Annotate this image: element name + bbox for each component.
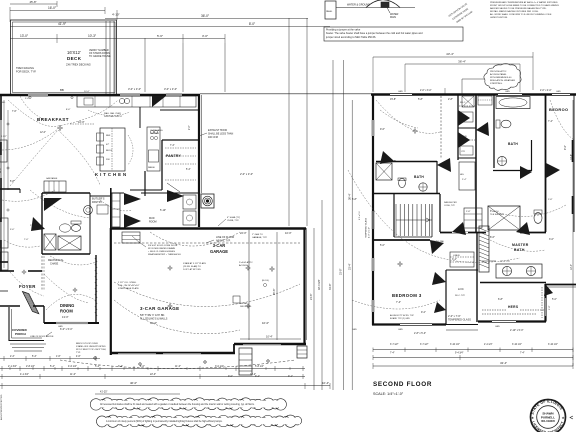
window labels above top wall: [60, 87, 177, 92]
svg-text:5'-0 x 3'-6: 5'-0 x 3'-6: [490, 211, 500, 213]
dimension line 36'-0 upper right of first floor: [105, 14, 308, 19]
room label BEDROOM 3: [392, 293, 422, 304]
note wall cab over: [104, 112, 123, 118]
staircase second floor vertical treads: [396, 204, 432, 236]
dimension row 1 first floor: [0, 365, 305, 369]
dimension 4'-10: [112, 10, 120, 20]
pantry left wall: [161, 140, 163, 190]
door wedge hall 1: [452, 222, 466, 235]
svg-text:2'-0″ x 4'-0″: 2'-0″ x 4'-0″: [540, 90, 552, 92]
svg-text:TILE SHOWER: TILE SHOWER: [490, 214, 504, 216]
svg-text:6'-8″: 6'-8″: [352, 198, 357, 201]
left edge cut-off room fragments: [0, 102, 8, 291]
garage slab note: [183, 262, 207, 271]
svg-text:11'-0″: 11'-0″: [70, 373, 76, 376]
svg-text:5'-10″: 5'-10″: [160, 209, 166, 212]
room label FOYER: [19, 284, 36, 289]
svg-text:CENTER: CENTER: [150, 133, 159, 135]
svg-text:PANTRY: PANTRY: [166, 154, 181, 158]
svg-text:10'-2″: 10'-2″: [250, 373, 256, 376]
stair rail note: [444, 201, 457, 207]
svg-text:LINEN: LINEN: [453, 255, 460, 257]
svg-text:KITCHEN: KITCHEN: [95, 172, 128, 177]
svg-text:7'-4″: 7'-4″: [520, 353, 525, 355]
right edge wall second floor: [573, 95, 575, 232]
master shower tile box: [488, 206, 520, 230]
deck label 16'X12' DECK: [66, 50, 91, 67]
svg-text:10'-0″: 10'-0″: [78, 120, 85, 124]
svg-text:GRD: GRD: [58, 326, 63, 328]
dimension row 2 first floor: [0, 373, 305, 377]
svg-text:2'-8″: 2'-8″: [448, 98, 453, 101]
svg-text:10'-0″: 10'-0″: [84, 91, 90, 93]
svg-text:11'-0″: 11'-0″: [175, 365, 181, 368]
left vertical dimension line: [4, 100, 8, 268]
svg-text:31'-4″: 31'-4″: [349, 264, 352, 270]
svg-text:3'-0″: 3'-0″: [549, 238, 554, 241]
svg-text:9'-2″: 9'-2″: [421, 311, 426, 314]
svg-text:2'-4″: 2'-4″: [462, 179, 467, 181]
window size labels second floor bottom: [352, 326, 524, 335]
svg-text:7'-0″: 7'-0″: [24, 239, 29, 241]
vertical dimension line x343: [340, 60, 344, 390]
covered porch inner line: [12, 309, 43, 338]
svg-text:2'-8 1/4″: 2'-8 1/4″: [26, 365, 35, 368]
garage electrical dashed arcs: [114, 232, 300, 334]
svg-text:OVERHANG: OVERHANG: [150, 129, 163, 132]
svg-text:★: ★: [562, 416, 565, 420]
mechanical chase label: [48, 259, 64, 265]
svg-text:11'-8″: 11'-8″: [390, 160, 396, 163]
dining bottom wall with window: [44, 322, 99, 324]
svg-text:RAILING PER: RAILING PER: [444, 201, 457, 204]
dimension row2 ticks: [2, 367, 303, 379]
svg-text:HERS: HERS: [508, 305, 519, 309]
dimension 5'-6 3'-0 below deck: [118, 34, 225, 43]
bath3 bottom wall: [372, 193, 440, 195]
bath2 tub: [496, 97, 530, 109]
bath3 right wall: [436, 161, 438, 194]
svg-text:2'-8″: 2'-8″: [548, 199, 553, 201]
extra tick dims breakfast: [10, 91, 90, 241]
svg-text:LOC: LOC: [458, 287, 464, 291]
svg-text:BATH: BATH: [508, 142, 518, 146]
room label BUTLERS PANTRY: [92, 197, 105, 205]
svg-text:36'-0″: 36'-0″: [201, 14, 210, 18]
svg-text:GRD: GRD: [398, 91, 403, 93]
svg-text:31'-8″: 31'-8″: [340, 269, 343, 275]
svg-text:3'-7 1/2″: 3'-7 1/2″: [390, 344, 399, 346]
first floor right exterior wall: [199, 95, 202, 227]
bedroom2 closet dashed divider: [440, 96, 442, 158]
vertical dimension line x322: [318, 200, 322, 390]
svg-text:5'-4″: 5'-4″: [32, 356, 37, 358]
svg-text:ROOM: ROOM: [149, 220, 156, 223]
second floor top exterior wall: [371, 93, 576, 95]
title SECOND FLOOR: [373, 381, 432, 388]
svg-text:TO GRADE HOUSE: TO GRADE HOUSE: [89, 55, 111, 58]
door wedges bedroom entry: [520, 163, 560, 179]
revision cloud note row 1: [90, 398, 286, 411]
first floor left exterior wall: [0, 95, 2, 271]
bath top wall: [42, 192, 90, 194]
svg-text:INSULATION. WEATHER: INSULATION. WEATHER: [490, 79, 515, 82]
svg-text:RANGE: RANGE: [148, 166, 155, 169]
svg-text:TEMPERED GLASS: TEMPERED GLASS: [448, 318, 471, 321]
garage bottom small dims: [150, 231, 293, 378]
door wedge bedroom3: [432, 272, 446, 285]
foyer ceiling fixture: [22, 270, 77, 292]
svg-text:3'-10 1/2″: 3'-10 1/2″: [512, 344, 522, 346]
rotated anti-siphon note: [448, 2, 473, 24]
svg-text:2'-0″ x 3'-0″: 2'-0″ x 3'-0″: [420, 90, 432, 92]
svg-text:FOR DECK, TYP.: FOR DECK, TYP.: [16, 70, 37, 74]
svg-text:43'-3 3/4″: 43'-3 3/4″: [318, 279, 321, 290]
svg-text:5'-8″: 5'-8″: [418, 98, 423, 101]
svg-text:+ SELF-CLOSING HINGES: + SELF-CLOSING HINGES: [148, 251, 175, 253]
svg-text:5'-4″: 5'-4″: [95, 365, 100, 368]
bedroom3 top wall y240: [373, 239, 430, 241]
svg-text:PROVIDE ATTIC: PROVIDE ATTIC: [490, 70, 507, 73]
svg-text:3'-0″: 3'-0″: [202, 34, 208, 38]
svg-text:13'-0″: 13'-0″: [20, 34, 29, 38]
hall wall y232 left segment: [440, 232, 486, 234]
svg-text:4'-0 x 5'-0: 4'-0 x 5'-0: [359, 210, 361, 220]
room label BEDROOM cut at right edge: [549, 107, 568, 112]
svg-text:MAIN: MAIN: [390, 16, 396, 19]
door wedge into bath: [44, 198, 62, 211]
svg-text:8'-6″: 8'-6″: [66, 109, 71, 111]
note trex railing for deck: [16, 66, 37, 74]
garage finish note: [140, 314, 168, 320]
covered porch bottom wall: [9, 340, 44, 342]
svg-text:3'-10 1/2″: 3'-10 1/2″: [548, 344, 558, 346]
svg-text:Keeler. The valve Keeler shall: Keeler. The valve Keeler shall have a ju…: [326, 32, 423, 35]
svg-text:ROOM: ROOM: [60, 309, 73, 314]
garage dashed line of floor above: [114, 242, 300, 244]
attic cloud leader line: [462, 79, 485, 94]
svg-text:2'-4 1/4″: 2'-4 1/4″: [484, 344, 493, 346]
left wall window openings second floor: [372, 120, 374, 312]
svg-text:DROP SOL.: DROP SOL.: [240, 306, 252, 308]
svg-text:12'-4″: 12'-4″: [570, 264, 573, 270]
svg-text:001-019645: 001-019645: [541, 419, 555, 423]
svg-text:2'-0″: 2'-0″: [189, 125, 191, 130]
svg-text:3-CAR GARAGE: 3-CAR GARAGE: [140, 306, 180, 311]
svg-text:3'-4″: 3'-4″: [118, 365, 123, 368]
svg-text:BOARD TYP. (2) GRD: BOARD TYP. (2) GRD: [390, 317, 410, 320]
room label BATH second: [508, 142, 518, 146]
svg-text:36'-4″: 36'-4″: [349, 194, 352, 200]
room label BATH small: [414, 175, 424, 179]
svg-text:COL. ON 24″x24″x10″: COL. ON 24″x24″x10″: [118, 285, 140, 287]
mud hall lockers strip: [112, 193, 120, 227]
svg-text:GRD: GRD: [556, 91, 561, 93]
svg-text:45'-8″: 45'-8″: [29, 0, 36, 4]
svg-text:5'-0″: 5'-0″: [380, 244, 385, 247]
wall right of stairs x440: [439, 194, 441, 232]
note exhaust hood: [199, 129, 234, 139]
svg-text:PORCH: PORCH: [15, 332, 26, 336]
floating window label right of plan: [240, 172, 253, 176]
svg-text:INSTALL WATER SAVING FIXTURES: INSTALL WATER SAVING FIXTURES PER CODE.: [490, 10, 539, 13]
svg-text:400 CFM: 400 CFM: [208, 136, 218, 139]
note line of roof above porch: [30, 332, 54, 338]
front stoop steps below porch: [10, 344, 46, 351]
garage rear steps stoop: [239, 348, 252, 375]
svg-text:6'-8″: 6'-8″: [498, 298, 503, 301]
svg-text:3'-10 1/2″: 3'-10 1/2″: [450, 344, 460, 346]
pantry small dims: [170, 125, 191, 171]
svg-text:MASTER: MASTER: [512, 243, 529, 247]
garage plate note: [218, 216, 240, 226]
wall below kitchen: [130, 171, 162, 196]
svg-text:15'-8″: 15'-8″: [390, 98, 396, 101]
pantry door wedge: [167, 183, 184, 202]
interior garage entry steps: [122, 232, 140, 243]
second floor right wall hers: [544, 284, 546, 322]
window openings in top wall: [28, 94, 182, 96]
butlers pantry sink and counter: [84, 205, 108, 214]
svg-text:31'-8″: 31'-8″: [329, 284, 332, 290]
door wedge closet lower: [458, 132, 470, 148]
window opening bedroom3 bottom: [400, 324, 432, 326]
svg-text:16'X12': 16'X12': [67, 50, 81, 55]
svg-text:4'-0″ x 5'-0″: 4'-0″ x 5'-0″: [369, 227, 371, 238]
svg-text:BEDROOM 3: BEDROOM 3: [392, 293, 422, 298]
svg-text:CTR: CTR: [461, 151, 466, 153]
svg-text:42″: 42″: [106, 144, 109, 146]
jumper note box: [324, 27, 463, 41]
garage inner dimension line 10'-4: [240, 335, 301, 340]
revision cloud note row 2: [97, 415, 302, 427]
svg-text:SECOND FLOOR: SECOND FLOOR: [373, 381, 432, 388]
stair side walls: [394, 194, 432, 237]
svg-text:BUILDING PAD: BUILDING PAD: [430, 240, 445, 243]
svg-text:3-CAR: 3-CAR: [213, 243, 226, 248]
svg-text:2'-8″: 2'-8″: [549, 305, 551, 310]
sink oval powder bath: [59, 224, 70, 232]
kitchen island cabinet: [97, 128, 126, 171]
svg-text:3'-0″ x 3'-0″: 3'-0″ x 3'-0″: [128, 87, 141, 91]
door wedge bedroom2 entry: [437, 158, 451, 172]
svg-text:WITH MINIMUM R-40: WITH MINIMUM R-40: [490, 77, 512, 79]
svg-text:11'-0″: 11'-0″: [0, 167, 2, 173]
bath left wall: [41, 193, 43, 254]
svg-text:STAND-OFF UNSUPPORTED: STAND-OFF UNSUPPORTED: [76, 345, 106, 348]
door wedge at deck door top wall: [152, 96, 166, 107]
water and ground detail: [336, 0, 415, 19]
svg-text:2X6 TREX DECKING: 2X6 TREX DECKING: [66, 63, 91, 67]
svg-text:STEEL BASE PLATE: STEEL BASE PLATE: [118, 287, 139, 290]
svg-text:7'-4″: 7'-4″: [170, 145, 175, 147]
svg-text:3'-7 1/2″: 3'-7 1/2″: [420, 344, 429, 346]
svg-text:DISPOSAL SUPPLY: DISPOSAL SUPPLY: [104, 115, 123, 118]
svg-text:TEMPERED GLASS: TEMPERED GLASS: [365, 217, 368, 238]
kitchen top counter with sink: [77, 96, 196, 107]
window opening hers bottom: [492, 321, 516, 323]
svg-text:10'-4″: 10'-4″: [266, 335, 273, 339]
note line of floor above: [206, 236, 234, 243]
room label MASTER BATH: [512, 243, 529, 252]
svg-text:AS NOTED/PROTECTED: AS NOTED/PROTECTED: [0, 394, 3, 420]
svg-text:10'-0″: 10'-0″: [262, 321, 269, 325]
svg-text:4'-0″: 4'-0″: [140, 365, 145, 368]
room label MUD ROOM: [149, 217, 156, 223]
bath bottom wall: [42, 253, 90, 255]
svg-text:LATEST EDITION.: LATEST EDITION.: [490, 16, 508, 19]
svg-text:W.I.C. TYP.: W.I.C. TYP.: [455, 295, 466, 297]
master bath vanity with two sinks: [482, 261, 542, 278]
first floor top exterior wall: [0, 94, 200, 96]
bath2 bottom wall: [493, 170, 532, 172]
fixture diamonds on grade arc: [93, 356, 270, 366]
svg-text:PANEL: PANEL: [326, 10, 333, 13]
door wedge mud hall upper: [124, 193, 141, 205]
svg-text:(25 FR. SLAB) TO: (25 FR. SLAB) TO: [183, 265, 201, 268]
svg-text:22'-0″: 22'-0″: [150, 373, 156, 376]
garage bottom wall left portion: [110, 352, 235, 354]
door wedge bath3 entry: [380, 151, 394, 164]
garage attic access note: [239, 261, 275, 287]
second floor left exterior wall: [372, 94, 374, 325]
second floor dim texts row B: [390, 353, 525, 355]
breakfast small dims: [10, 111, 46, 183]
butlers pantry walls: [90, 196, 110, 216]
svg-text:8'-6″: 8'-6″: [490, 236, 495, 239]
subtitle scale: [373, 392, 404, 396]
svg-text:7'-6″: 7'-6″: [12, 111, 17, 113]
svg-text:ACCESS: ACCESS: [239, 264, 249, 267]
svg-text:32'-0″: 32'-0″: [150, 321, 157, 325]
svg-text:13'-0″: 13'-0″: [62, 315, 69, 319]
garage column note: [118, 282, 140, 290]
dashed grade arc under garage: [60, 360, 295, 369]
second floor top dimension 36'-4: [373, 57, 520, 94]
svg-text:ALIGN BOTT. W/ RD. TOP: ALIGN BOTT. W/ RD. TOP: [390, 314, 414, 317]
washer dryer boxes: [183, 195, 196, 225]
svg-text:BB: BB: [60, 88, 64, 92]
svg-text:BEDROO: BEDROO: [549, 107, 568, 112]
svg-text:41'-25″: 41'-25″: [100, 391, 108, 394]
closet small boxes detail: [460, 96, 492, 155]
dimension row 3 first floor 46'-0: [0, 381, 330, 389]
grd labels above second floor wall: [398, 90, 561, 93]
second floor dim line row A: [373, 348, 573, 353]
vertical dimension line x333: [329, 60, 333, 390]
svg-text:LED: LED: [1, 102, 6, 104]
svg-text:BATH: BATH: [414, 175, 424, 179]
svg-text:STRIPPING.: STRIPPING.: [490, 83, 503, 85]
svg-text:10'-4″: 10'-4″: [322, 381, 329, 385]
svg-text:BLDG: BLDG: [106, 150, 112, 152]
rotated sheet note left edge: [0, 394, 3, 420]
svg-text:36″ H. TYP.: 36″ H. TYP.: [500, 261, 511, 263]
svg-text:4'-6 1/4″: 4'-6 1/4″: [68, 365, 77, 368]
panel detail rectangle: [325, 1, 336, 19]
loc closet walls: [446, 232, 478, 325]
svg-text:ALL WORK SHALL CONFORM TO ILLI: ALL WORK SHALL CONFORM TO ILLINOIS PLUMB…: [490, 13, 552, 16]
svg-text:43'-4″: 43'-4″: [500, 361, 507, 365]
wall stub left of bath: [0, 189, 20, 193]
solid core door note: [132, 236, 182, 256]
door wedge bath2 entry: [476, 122, 489, 136]
bedroom right dims: [548, 120, 567, 150]
room label LOC: [455, 287, 466, 297]
svg-text:GRD: GRD: [352, 329, 357, 331]
svg-text:CHASE: CHASE: [50, 262, 59, 265]
door wedge bedroom3 top: [430, 240, 444, 254]
bath2 right walls: [532, 94, 546, 232]
dimension 45'-8 topmost: [10, 0, 57, 7]
room label DINING ROOM: [60, 303, 74, 319]
hers right wall window: [546, 298, 552, 316]
counter strip above bath: [44, 177, 66, 192]
svg-text:9'-0″: 9'-0″: [564, 145, 567, 150]
garage door openings bottom wall: [118, 345, 281, 354]
svg-text:BUTLER'S: BUTLER'S: [92, 197, 105, 201]
svg-text:20'-6″: 20'-6″: [273, 289, 276, 295]
dining left wall: [43, 306, 45, 323]
svg-text:(B.O.B.): (B.O.B.): [262, 280, 270, 282]
svg-text:REF: REF: [106, 135, 111, 137]
door wedge hers: [544, 285, 553, 296]
left wing bottom dimension stub: [0, 356, 100, 361]
deck stair edge lines: [106, 21, 114, 94]
svg-text:2'-1 3/4″: 2'-1 3/4″: [8, 365, 17, 368]
mud room dim 5'-10: [160, 209, 166, 212]
svg-text:GRD: GRD: [495, 326, 500, 328]
svg-text:WEATHERSTRIP + THRESHOLD: WEATHERSTRIP + THRESHOLD: [148, 253, 182, 256]
dimension 41'-9 long line: [10, 22, 330, 27]
attic access cloud bubble: [484, 64, 521, 91]
room label BREAKFAST: [37, 117, 69, 122]
dining right wall hatched: [95, 255, 97, 323]
svg-text:TYP.: TYP.: [76, 352, 81, 354]
foyer top wall: [0, 270, 42, 272]
svg-text:SCALE: 1/4″=1'-0″: SCALE: 1/4″=1'-0″: [373, 392, 404, 396]
dining window label: [58, 326, 73, 331]
dimension row1 ticks: [2, 366, 303, 371]
bath3 top wall: [376, 161, 437, 163]
svg-text:TREX RAILING: TREX RAILING: [16, 66, 34, 70]
left wall rotated window label: [365, 217, 371, 238]
hall wall y232 right segment: [520, 232, 546, 234]
toilet powder bath: [71, 221, 81, 231]
more electrical arcs first floor: [4, 190, 132, 247]
second floor wall to right edge: [545, 285, 576, 288]
room label 3-CAR GARAGE lower: [140, 306, 180, 311]
svg-text:7'-4″: 7'-4″: [548, 120, 553, 123]
svg-text:10'-3″: 10'-3″: [88, 34, 97, 38]
svg-text:All recessed luminaires shall: All recessed luminaires shall be IC rate…: [100, 403, 255, 406]
svg-text:10'-0″: 10'-0″: [285, 231, 292, 235]
svg-text:8'-0″: 8'-0″: [249, 22, 256, 26]
svg-text:3'-6″: 3'-6″: [10, 229, 15, 231]
second floor bottom wall hers: [478, 320, 546, 322]
svg-text:3'-0 1/2″: 3'-0 1/2″: [215, 365, 224, 368]
bath2 toilet: [496, 120, 511, 128]
svg-text:2'-10″ x 5'-0″: 2'-10″ x 5'-0″: [510, 329, 524, 332]
svg-text:STAIR AT 5 1/2″ PLATE: STAIR AT 5 1/2″ PLATE: [183, 262, 207, 265]
tub box with X: [58, 236, 81, 250]
garage bottom wall jog: [233, 344, 235, 353]
svg-text:16'-0″: 16'-0″: [48, 6, 57, 10]
svg-text:DETAIL: DETAIL: [240, 302, 248, 305]
svg-text:WALL CAB. OVER: WALL CAB. OVER: [104, 112, 121, 115]
reference line between plans at y94: [200, 93, 371, 95]
plumbing note block top right: [490, 1, 560, 19]
